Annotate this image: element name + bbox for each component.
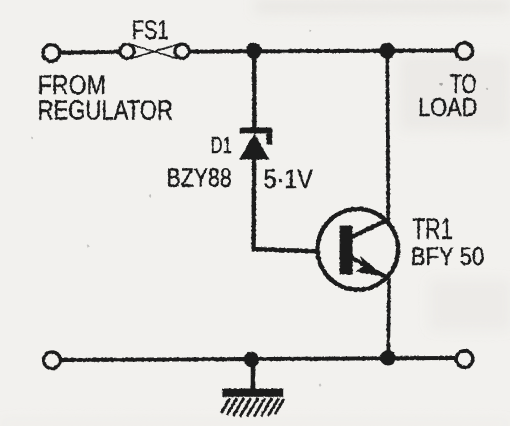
wire: top junction down to transistor collector <box>387 51 388 221</box>
wire: transistor emitter down to bottom rail <box>386 278 390 358</box>
svg-text:FS1: FS1 <box>132 15 169 45</box>
wire: fuse to top-right terminal <box>189 50 456 51</box>
svg-text:BFY 50: BFY 50 <box>411 243 484 271</box>
terminal bottom-right <box>456 351 473 368</box>
node: top junction at diode branch <box>246 43 262 59</box>
terminal top-right (output) <box>456 43 473 60</box>
svg-text:BZY88: BZY88 <box>167 163 232 193</box>
node: bottom junction at emitter branch <box>380 350 395 365</box>
wire: bottom rail <box>60 358 455 360</box>
node: bottom junction at ground <box>244 352 259 367</box>
terminal top-left (input) <box>43 45 60 62</box>
svg-text:5·1V: 5·1V <box>264 164 314 194</box>
svg-text:TR1: TR1 <box>412 213 453 246</box>
wire: zener anode down and right to transistor base <box>254 158 316 251</box>
zener diode D1 <box>239 128 272 160</box>
fuse FS1 <box>120 44 189 59</box>
svg-text:LOAD: LOAD <box>418 92 477 122</box>
wire: top junction down to zener cathode <box>252 51 257 129</box>
svg-text:REGULATOR: REGULATOR <box>38 95 173 126</box>
node: top junction at transistor branch <box>379 43 395 59</box>
svg-text:D1: D1 <box>211 132 232 158</box>
wire: ground stub <box>251 359 256 389</box>
ground symbol <box>221 389 284 417</box>
transistor TR1 <box>318 209 399 290</box>
wire: input terminal to fuse <box>60 52 121 53</box>
terminal bottom-left <box>44 352 61 369</box>
